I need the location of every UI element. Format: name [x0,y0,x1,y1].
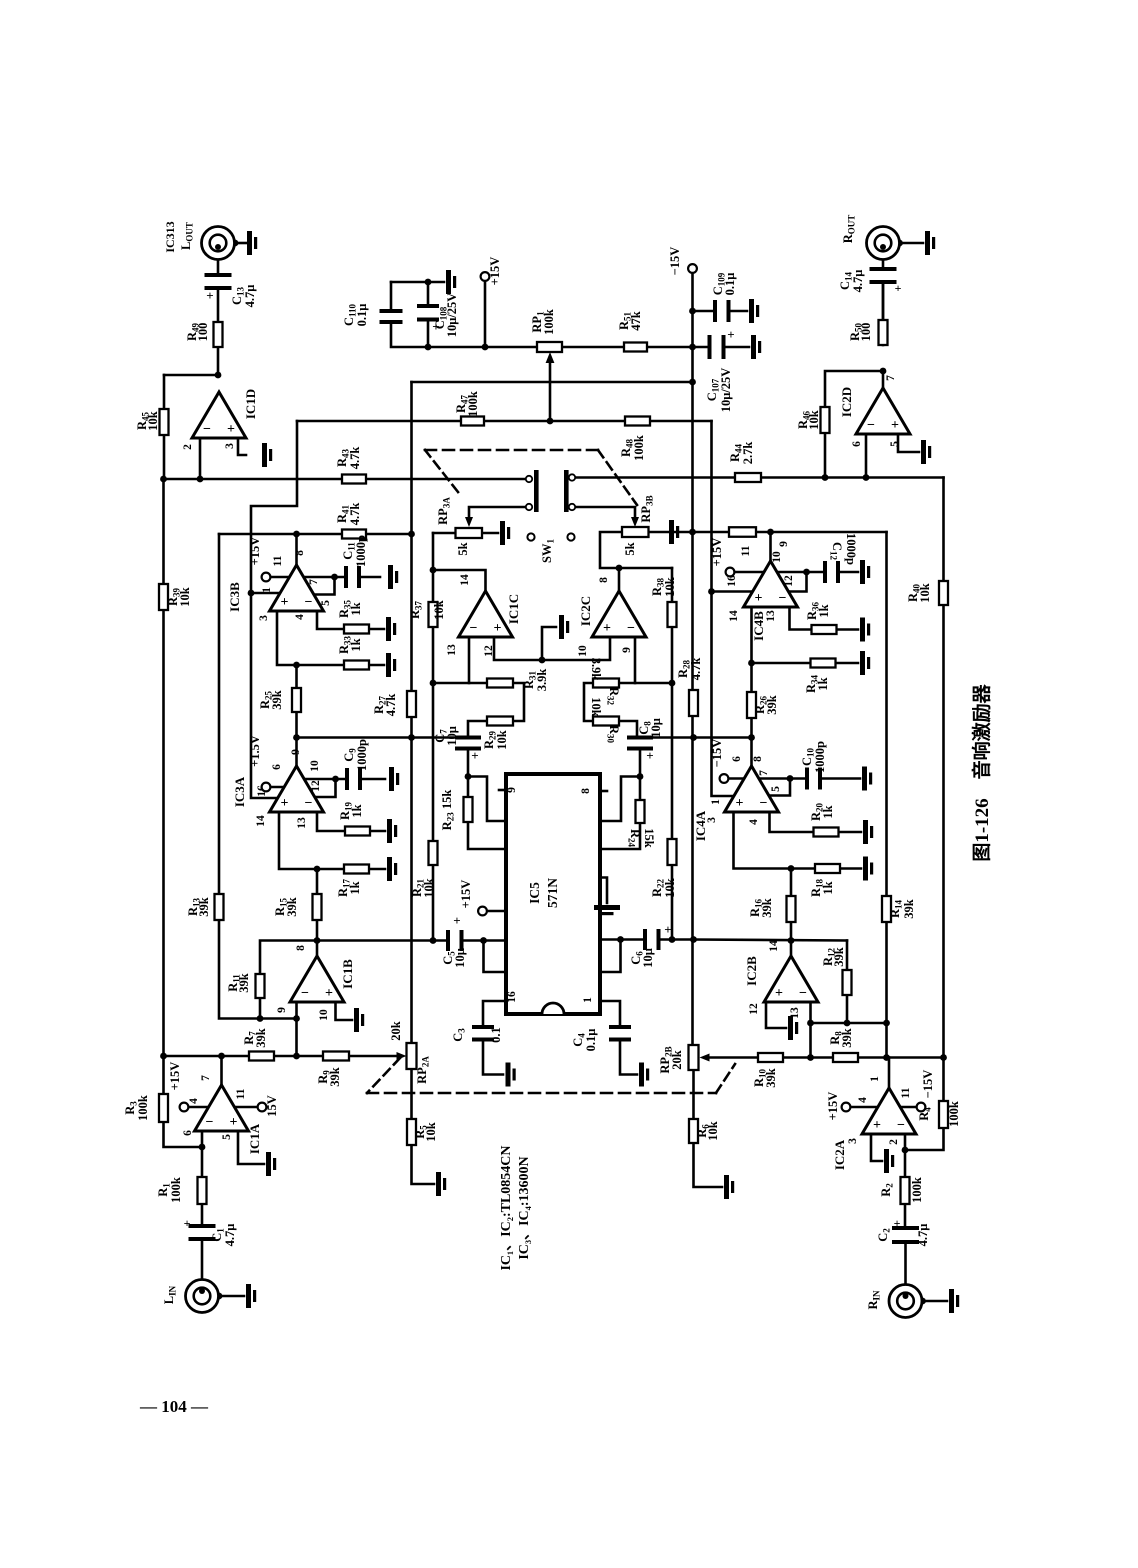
svg-text:14: 14 [459,574,471,586]
ground [559,615,564,639]
wire [809,1000,812,1058]
wire [708,1056,944,1059]
wire [164,478,527,481]
capacitor C2 [892,1226,919,1230]
svg-text:39k: 39k [760,898,774,918]
svg-text:+: + [227,422,235,437]
capacitor C6 [643,929,661,950]
wire [634,637,637,683]
svg-text:+: + [206,288,213,303]
wire [199,438,202,479]
svg-text:10: 10 [309,760,321,772]
svg-text:IC3B: IC3B [227,582,242,612]
svg-text:IC1C: IC1C [506,594,521,624]
svg-text:5k: 5k [623,542,637,555]
wire [260,941,317,975]
wire [271,576,291,579]
svg-text:+: + [775,986,783,1001]
resistor R32 [593,679,619,688]
svg-text:100: 100 [859,323,873,342]
wire [238,438,246,455]
resistor R37 [429,602,438,627]
connector R-OUT jack [867,227,900,260]
svg-text:4.7k: 4.7k [689,658,703,681]
svg-text:IC313: IC313 [163,221,177,252]
svg-text:1k: 1k [349,602,363,615]
svg-text:+: + [736,796,744,811]
svg-text:100k: 100k [632,435,646,461]
svg-text:+1.5V: +1.5V [248,735,262,767]
wire [898,434,919,452]
svg-text:100k: 100k [466,391,480,417]
ground [247,231,252,255]
svg-text:14: 14 [255,815,267,827]
capacitor C7 [455,736,481,740]
op-amp IC2C [592,591,646,637]
terminal -15V [688,264,697,273]
svg-text:6: 6 [851,441,863,447]
svg-text:+: + [727,327,734,342]
wire [575,476,944,479]
svg-text:— 104 —: — 104 — [139,1397,209,1416]
svg-text:+15V: +15V [168,1062,182,1091]
resistor R24 [636,800,645,823]
svg-text:20k: 20k [670,1050,684,1070]
resistor R23 [464,797,473,822]
svg-text:2: 2 [888,1139,900,1145]
wire [637,736,752,739]
wire [790,869,793,897]
svg-text:9: 9 [276,1007,288,1013]
op-amp IC1C [459,591,513,637]
terminal +15V IC1A [180,1103,189,1112]
svg-text:100: 100 [196,323,210,342]
svg-text:IC5: IC5 [527,882,542,904]
wire [433,570,486,591]
svg-text:0.1μ: 0.1μ [723,273,737,296]
wire [649,531,693,534]
wire [433,682,487,685]
svg-text:571N: 571N [545,878,560,908]
svg-text:+: + [873,1118,881,1133]
resistor R48 [625,417,650,426]
svg-text:+15V: +15V [459,880,473,909]
svg-text:10: 10 [577,645,589,657]
resistor R3 [159,1094,168,1122]
resistor R47 [461,417,484,426]
wire [905,1128,944,1150]
node output L [215,372,222,379]
svg-text:100k: 100k [542,309,556,335]
wire [467,750,470,777]
wire [600,532,672,568]
op-amp IC4A [725,766,779,812]
wire [482,532,498,535]
svg-text:+: + [281,796,289,811]
ground [506,1063,511,1087]
wire [750,663,753,692]
svg-text:39k: 39k [840,1028,854,1048]
svg-text:4.7μ: 4.7μ [223,1224,237,1247]
svg-text:4: 4 [748,819,760,825]
svg-text:1k: 1k [348,881,362,894]
svg-text:+: + [603,621,611,636]
svg-text:IC₃、IC₄:13600N: IC₃、IC₄:13600N [517,1156,532,1259]
resistor R21 [429,841,438,865]
resistor R43 [342,475,366,484]
wire [234,1106,258,1109]
wire [712,590,754,593]
resistor R35 [344,625,369,634]
wire [271,786,285,789]
svg-text:8: 8 [580,788,592,794]
svg-text:3.9k: 3.9k [589,658,603,681]
resistor R17 [344,865,369,874]
svg-text:7: 7 [758,770,770,776]
ground [262,443,267,467]
svg-text:9: 9 [778,541,790,547]
ground [860,560,865,584]
wire [251,592,280,595]
svg-text:R23 15k: R23 15k [440,790,456,831]
capacitor C10 [805,768,822,790]
resistor R6 [689,1119,698,1143]
wire [693,346,712,349]
svg-text:11: 11 [235,1088,247,1099]
svg-text:+15V: +15V [710,538,724,567]
ground [446,270,451,294]
terminal +1.5V IC3A [262,783,271,792]
svg-text:5: 5 [770,786,782,792]
resistor R22 [668,839,677,865]
wire [297,420,712,423]
svg-text:100k: 100k [136,1095,150,1121]
resistor R36 [812,625,837,634]
ground [863,857,868,881]
svg-text:11: 11 [900,1087,912,1098]
wire [600,938,647,941]
wire [734,812,816,869]
svg-text:−: − [301,986,309,1001]
wire [483,1001,506,1029]
resistor R46 [821,407,830,433]
capacitor C3 [472,1025,494,1029]
wire [164,374,218,377]
resistor R31 [487,679,513,688]
svg-text:13: 13 [765,610,777,622]
resistor R5 [407,1119,416,1145]
wire [692,1070,695,1119]
svg-text:IC1B: IC1B [340,959,355,989]
wire [923,1300,948,1303]
terminal +15V IC2A [842,1103,851,1112]
svg-text:9: 9 [290,749,302,755]
svg-text:9: 9 [506,787,518,793]
svg-text:1000p: 1000p [844,533,858,565]
wire [316,941,319,957]
svg-text:IC2C: IC2C [578,596,593,626]
svg-text:39k: 39k [197,897,211,917]
svg-text:−: − [760,796,768,811]
wire [600,878,607,904]
svg-text:10k: 10k [589,697,603,717]
svg-text:8: 8 [294,550,306,556]
wire [882,285,885,345]
wire [494,637,610,660]
op-amp IC3B [270,565,324,611]
op-amp IC2A [862,1088,916,1134]
svg-text:1k: 1k [821,805,835,818]
resistor R29 [487,717,513,726]
wire [671,568,674,940]
wire [304,576,335,579]
wire [888,1058,891,1089]
svg-text:0.1: 0.1 [489,1027,503,1043]
op-amp IC2D [856,388,910,434]
wire [900,242,924,245]
wire [317,812,345,831]
svg-text:IC1D: IC1D [243,389,258,419]
resistor R19 [345,827,370,836]
wire [824,433,827,478]
svg-text:2: 2 [182,444,194,450]
ground [860,651,865,675]
wire [885,532,888,1058]
wire [499,789,506,792]
op-amp IC1A [195,1085,249,1131]
svg-text:10μ: 10μ [641,948,655,968]
svg-text:39k: 39k [765,695,779,715]
svg-text:0.1μ: 0.1μ [355,304,369,327]
wire [769,532,772,561]
svg-text:10k: 10k [495,730,509,750]
wire [433,939,450,942]
svg-text:+: + [230,1115,238,1130]
capacitor C110 [380,309,403,313]
svg-text:1000p: 1000p [355,739,369,771]
svg-text:10k: 10k [663,577,677,597]
svg-text:39k: 39k [285,897,299,917]
svg-text:15V: 15V [265,1095,279,1117]
wire [304,778,336,781]
op-amp IC3A [270,766,324,812]
wire [691,273,694,1045]
svg-text:14: 14 [728,610,740,622]
svg-text:1k: 1k [349,638,363,651]
svg-text:−: − [206,1115,214,1130]
potentiometer RP3A [456,528,483,538]
resistor R7 [249,1052,274,1061]
svg-text:+: + [494,621,502,636]
potentiometer RP2A [407,1043,417,1069]
wire [189,1106,210,1109]
ground [389,767,394,791]
capacitor C5 [446,930,464,951]
wire [846,941,849,971]
svg-text:−15V: −15V [668,247,682,276]
ground [246,1284,251,1308]
svg-text:11: 11 [272,555,284,566]
wire [163,375,166,409]
wire [575,507,635,521]
wire [219,534,297,1056]
svg-text:4: 4 [188,1098,200,1104]
wire [279,812,344,869]
wire [770,812,814,832]
wire [759,777,790,780]
svg-text:39k: 39k [328,1067,342,1087]
ground [863,820,868,844]
svg-text:4.7μ: 4.7μ [916,1224,930,1247]
svg-text:7: 7 [200,1075,212,1081]
svg-text:−: − [867,418,875,433]
wire [729,777,745,780]
svg-text:−: − [305,796,313,811]
svg-text:5: 5 [889,441,901,447]
svg-text:13: 13 [446,644,458,656]
svg-text:14: 14 [768,940,780,952]
svg-text:10k: 10k [918,583,932,603]
resistor R14 [882,896,891,922]
resistor R9 [323,1052,349,1061]
svg-text:20k: 20k [389,1021,403,1041]
op-amp IC1D [192,392,246,438]
resistor R44 [735,473,761,482]
wire [295,1002,298,1019]
wire [618,568,621,591]
wire [871,1131,882,1161]
svg-text:−: − [779,591,787,606]
svg-text:1: 1 [261,587,273,593]
wire [735,571,765,574]
wire [410,1069,413,1119]
svg-text:5: 5 [221,1134,233,1140]
svg-text:12: 12 [483,645,495,657]
ground [387,857,392,881]
resistor R27 [407,691,416,717]
resistor R26 [747,692,756,718]
svg-text:4.7k: 4.7k [348,503,362,526]
potentiometer RP2B [689,1045,699,1070]
ground [594,905,620,910]
wire [777,571,807,574]
svg-text:+15V: +15V [248,537,262,566]
svg-text:+: + [453,913,460,928]
wire [694,940,848,941]
terminal -15V IC2A [917,1103,926,1112]
wire [391,281,444,284]
ground [925,231,930,255]
capacitor C4 [609,1025,631,1029]
wire [316,869,319,894]
resistor R25 [292,688,301,712]
wire [639,750,642,777]
svg-text:+: + [894,1216,901,1230]
ground [388,565,393,589]
resistor R42 [729,527,756,537]
capacitor C13 [205,273,232,277]
capacitor C11 [344,566,361,588]
wire [219,1295,245,1298]
terminal -15V IC1A [258,1103,267,1112]
svg-text:3.9k: 3.9k [535,669,549,692]
resistor R34 [811,659,836,668]
ground [751,335,756,359]
svg-text:+15V: +15V [826,1092,840,1121]
svg-text:100k: 100k [169,1177,183,1203]
wire [693,310,718,313]
wire [220,1056,223,1085]
svg-text:4: 4 [857,1097,869,1103]
svg-text:10: 10 [771,551,783,563]
resistor R15 [313,894,322,920]
wire [277,611,344,665]
wire [367,1058,400,1093]
wire [600,790,607,793]
svg-text:12: 12 [783,575,795,587]
svg-text:−: − [203,422,211,437]
svg-text:5k: 5k [456,542,470,555]
ground [639,1063,644,1087]
wire [297,736,469,739]
svg-text:6: 6 [271,764,283,770]
svg-text:IC4B: IC4B [751,611,766,641]
potentiometer RP3B [622,527,649,537]
resistor R38 [668,602,677,627]
wire [238,1131,264,1164]
ground [860,618,865,642]
svg-text:10k: 10k [807,410,821,430]
svg-text:4.7μ: 4.7μ [243,285,257,308]
svg-text:+: + [755,591,763,606]
ground [386,653,391,677]
ground [921,440,926,464]
ground [788,1016,793,1040]
wire [425,450,458,492]
potentiometer RP1 [537,342,562,352]
svg-text:−: − [897,1118,905,1133]
svg-text:4.7k: 4.7k [384,694,398,717]
ground [266,1152,271,1176]
svg-text:1: 1 [710,799,722,805]
switch SW1 [534,470,539,512]
ground [884,1149,889,1173]
svg-text:3: 3 [258,615,270,621]
wire [217,248,220,277]
resistor R13 [215,894,224,920]
svg-text:图1-126 音响激励器: 图1-126 音响激励器 [970,683,993,861]
svg-text:−15V: −15V [710,739,724,768]
wire [619,682,672,685]
resistor R39 [159,584,168,610]
svg-text:IC2A: IC2A [832,1139,847,1170]
wire [712,421,735,796]
resistor R28 [689,690,698,716]
wire [600,1001,620,1029]
wire [811,1022,887,1025]
wire [251,421,297,798]
svg-text:1k: 1k [350,804,364,817]
wire [433,532,456,535]
svg-text:+: + [471,748,478,763]
op-amp IC2B [764,956,818,1002]
svg-text:12: 12 [748,1003,760,1015]
capacitor C108 [417,304,439,308]
svg-text:−: − [305,595,313,610]
wire [295,665,298,688]
resistor R40 [939,581,948,605]
svg-text:IC₁、IC₂:TL0854CN: IC₁、IC₂:TL0854CN [499,1145,514,1270]
